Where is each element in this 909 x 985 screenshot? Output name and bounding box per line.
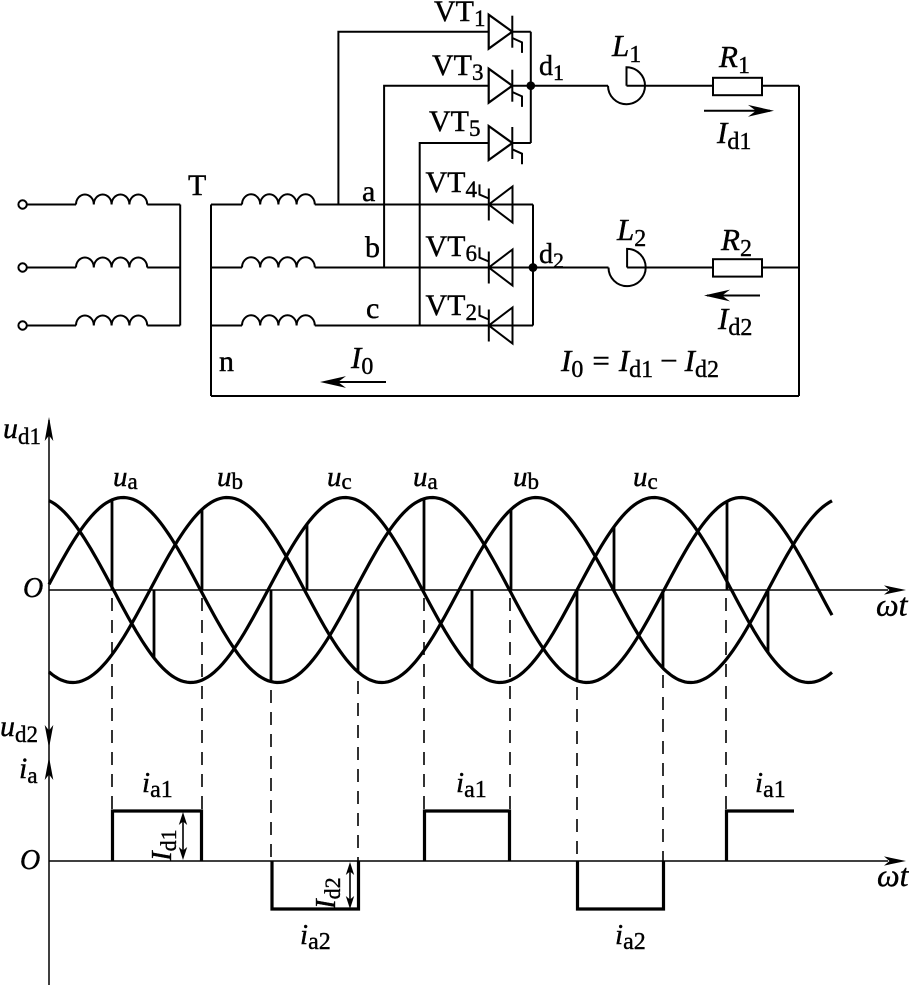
wire positive group cathode bus (530, 32, 532, 143)
wire current pulse ia2 #2 (578, 861, 664, 909)
thyristor VT5 (489, 126, 513, 160)
svg-text:I0=Id1−Id2: I0=Id1−Id2 (560, 343, 719, 383)
current Id1 arrow (704, 110, 770, 112)
wire u_d1 commutation bar x=727 (726, 501, 729, 590)
current Id1 magnitude double arrow (182, 816, 184, 856)
wire phase voltage curve ub (49, 498, 832, 683)
node u_d2 axis down arrow (45, 725, 54, 748)
wire VT5 cathode to bus (512, 142, 531, 144)
wire u_d2 commutation bar x=472 (471, 590, 474, 668)
inductor primary winding 3 of transformer T (76, 315, 147, 325)
wire dashed guide x=358 (357, 681, 359, 861)
wire u_d1 commutation bar x=614 (613, 527, 616, 590)
wire u_d2 commutation bar x=358 (357, 590, 360, 672)
wire u_d2 commutation bar x=663 (662, 590, 665, 668)
wire u_d1 commutation bar x=112 (111, 500, 114, 590)
inductor primary winding 1 of transformer T (76, 194, 147, 204)
svg-text:ωt: ωt (877, 857, 909, 893)
svg-text:VT2: VT2 (426, 289, 478, 325)
inductor primary winding 2 of transformer T (76, 257, 147, 267)
node omega-t axis chart1 (49, 589, 888, 591)
wire u_d2 commutation bar x=768 (767, 590, 770, 653)
svg-text:VT6: VT6 (426, 230, 478, 266)
primary input terminal 1 (18, 200, 26, 208)
wire phase a riser (338, 32, 488, 205)
svg-text:ia2: ia2 (300, 919, 331, 955)
svg-text:ua: ua (113, 461, 138, 494)
wire VT3 cathode to bus (512, 85, 531, 87)
wire phase c riser (420, 143, 489, 326)
wire R2 to right bus (762, 267, 799, 269)
wire d2 to L2 (533, 267, 609, 269)
current Id2 arrow (707, 295, 760, 297)
wire bottom return to n (211, 395, 799, 397)
svg-text:VT1: VT1 (434, 0, 486, 31)
wire primary winding 2 to star point (147, 267, 180, 269)
wire secondary row a to thyristor bridge (315, 204, 533, 206)
svg-text:I0: I0 (350, 340, 373, 380)
primary input terminal 3 (18, 321, 26, 329)
node d1 junction dot (527, 81, 536, 90)
svg-text:Id2: Id2 (717, 301, 752, 341)
svg-text:c: c (366, 292, 379, 325)
wire secondary row c left stub (211, 325, 242, 327)
primary input terminal 2 (18, 263, 26, 271)
current Id2 magnitude double arrow (349, 866, 351, 905)
svg-text:Id1: Id1 (716, 115, 751, 155)
svg-text:uc: uc (633, 461, 658, 494)
svg-text:ub: ub (513, 461, 539, 494)
wire current pulse ia1 #1 (113, 811, 202, 861)
svg-text:O: O (20, 845, 40, 876)
svg-text:ia1: ia1 (755, 767, 786, 803)
wire dashed guide x=202 (201, 598, 203, 810)
wire dashed guide x=510 (509, 598, 511, 810)
wire dashed guide x=112 (111, 598, 113, 810)
svg-text:VT4: VT4 (426, 166, 478, 202)
node i_a axis up arrow (45, 757, 54, 780)
svg-text:T: T (188, 169, 206, 202)
wire u_d2 commutation bar x=154 (153, 590, 156, 658)
wire R1 to right bus (762, 85, 799, 87)
wire current pulse ia2 #1 (272, 861, 359, 909)
wire secondary row b left stub (211, 267, 242, 269)
wire primary lead 3 (27, 325, 76, 327)
svg-text:R1: R1 (718, 39, 750, 79)
wire primary winding 3 to star point (147, 325, 180, 327)
thyristor VT6 (489, 250, 513, 286)
svg-text:ud2: ud2 (0, 710, 38, 747)
svg-text:L1: L1 (611, 28, 641, 68)
node u_d1 axis (vertical) (48, 420, 50, 985)
svg-text:uc: uc (327, 461, 352, 494)
svg-text:ia1: ia1 (142, 767, 173, 803)
thyristor VT1 (489, 15, 513, 49)
wire phase voltage curve uc (49, 498, 832, 683)
wire dashed guide x=663 (662, 675, 664, 861)
inductor secondary winding phase b (242, 257, 315, 267)
wire u_d1 commutation bar x=511 (510, 509, 513, 590)
wire phase voltage curve ua (49, 498, 832, 683)
svg-text:Id2: Id2 (310, 877, 345, 910)
svg-text:VT3: VT3 (432, 49, 484, 85)
wire negative group anode bus (532, 205, 534, 326)
wire current pulse ia1 #2 (425, 811, 510, 861)
wire u_d1 commutation bar x=307 (306, 524, 309, 590)
inductor secondary winding phase c (242, 315, 315, 325)
wire secondary neutral bus n (210, 205, 212, 397)
wire u_d1 commutation bar x=424 (423, 499, 426, 590)
thyristor VT2 (489, 308, 513, 344)
svg-text:n: n (219, 345, 234, 378)
wire u_d1 commutation bar x=202 (201, 509, 204, 590)
wire primary lead 1 (27, 204, 76, 206)
resistor R1 (713, 78, 762, 95)
wire u_d2 commutation bar x=577 (576, 590, 579, 681)
svg-text:L2: L2 (616, 212, 646, 252)
inductor secondary winding phase a (242, 194, 315, 204)
thyristor VT3 (489, 69, 513, 103)
wire dashed guide x=271 (270, 690, 272, 861)
wire phase b riser (384, 86, 489, 268)
svg-text:O: O (23, 573, 43, 604)
svg-text:b: b (365, 231, 380, 264)
wire dashed guide x=726 (725, 598, 727, 810)
thyristor VT4 (489, 187, 513, 223)
current I0 arrow (326, 381, 386, 383)
wire L1 to R1 (627, 85, 714, 87)
svg-text:Id1: Id1 (146, 829, 181, 862)
inductor L2 (609, 249, 646, 286)
node d2 junction dot (529, 263, 538, 272)
svg-text:d1: d1 (539, 51, 564, 85)
wire primary lead 2 (27, 267, 76, 269)
svg-text:ua: ua (413, 461, 438, 494)
wire dashed guide x=577 (576, 687, 578, 861)
wire u_d2 commutation bar x=271 (270, 590, 273, 682)
svg-text:ωt: ωt (876, 587, 909, 623)
wire dashed guide x=424 (423, 598, 425, 810)
svg-text:ub: ub (217, 461, 243, 494)
svg-text:R2: R2 (720, 222, 752, 262)
resistor R2 (713, 259, 762, 276)
wire d1 to L1 (531, 85, 608, 87)
wire secondary row a left stub (211, 204, 242, 206)
svg-text:a: a (362, 175, 375, 208)
wire right bus (798, 86, 800, 396)
svg-text:VT5: VT5 (429, 105, 481, 141)
wire L2 to R2 (627, 267, 713, 269)
wire current pulse ia1 #3 (open ended) (727, 811, 795, 861)
wire primary winding 1 to star point (147, 204, 180, 206)
svg-text:ia2: ia2 (615, 919, 646, 955)
svg-text:ud1: ud1 (3, 412, 41, 449)
wire primary star connection (179, 205, 181, 326)
svg-text:ia1: ia1 (456, 767, 487, 803)
svg-text:ia: ia (19, 752, 38, 788)
wire VT1 cathode to bus (512, 31, 531, 33)
inductor L1 (608, 67, 645, 104)
wire secondary row c to thyristor bridge (315, 325, 533, 327)
node omega-t axis chart2 (49, 860, 888, 862)
wire secondary row b to thyristor bridge (315, 267, 533, 269)
